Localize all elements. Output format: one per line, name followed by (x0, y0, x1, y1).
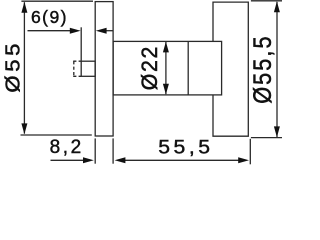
dimension line 6(9) left segment (28, 30, 72, 32)
arrowhead Ø55,5 up (274, 1, 280, 12)
arrowhead Ø22 up (163, 42, 169, 53)
hub shaft (Ø22 neck) (113, 41, 222, 95)
arrowhead Ø55 down (21, 123, 27, 134)
dimension line 8,2 (51, 159, 86, 161)
svg-text:55,5: 55,5 (158, 137, 213, 158)
arrowhead Ø22 down (163, 84, 169, 95)
dimension line 6(9) right segment (105, 30, 114, 32)
arrowhead 8,2 right-pointing (83, 157, 94, 163)
svg-text:6(9): 6(9) (31, 7, 68, 27)
extension line Ø55,5 top (251, 0, 282, 2)
plate (mounting flange, side view) (95, 2, 113, 136)
arrowhead Ø55 up (21, 2, 27, 13)
dimension line 55,5 (123, 159, 240, 161)
extension line Ø55,5 bottom (251, 137, 282, 139)
screw boss (solid) (81, 61, 95, 76)
svg-text:Ø55: Ø55 (1, 40, 24, 93)
arrowhead 6(9) left-pointing (96, 28, 107, 34)
extension line Ø55 bottom (21, 134, 92, 136)
arrowhead 55,5 right-pointing (238, 157, 249, 163)
arrowhead Ø55,5 down (274, 126, 280, 137)
hub inner edge (187, 41, 189, 95)
arrowhead 6(9) right-pointing (70, 28, 81, 34)
extension line plate left bottom (94, 138, 96, 163)
svg-text:Ø22: Ø22 (136, 45, 162, 90)
svg-text:8,2: 8,2 (50, 137, 84, 158)
dimension line Ø55,5 (276, 2, 278, 137)
dimension line Ø22 (165, 42, 167, 94)
svg-text:Ø55,5: Ø55,5 (249, 34, 277, 103)
extension line Ø55 top (21, 0, 93, 2)
disc (knob body Ø55,5) (213, 2, 248, 136)
extension line disc right bottom (249, 139, 251, 165)
screw hidden part (dashed) (73, 61, 81, 76)
dimension line Ø55 (23, 2, 25, 133)
extension line for 6(9) (80, 27, 82, 60)
extension line plate right bottom (112, 138, 114, 163)
arrowhead 55,5 left-pointing (115, 157, 126, 163)
